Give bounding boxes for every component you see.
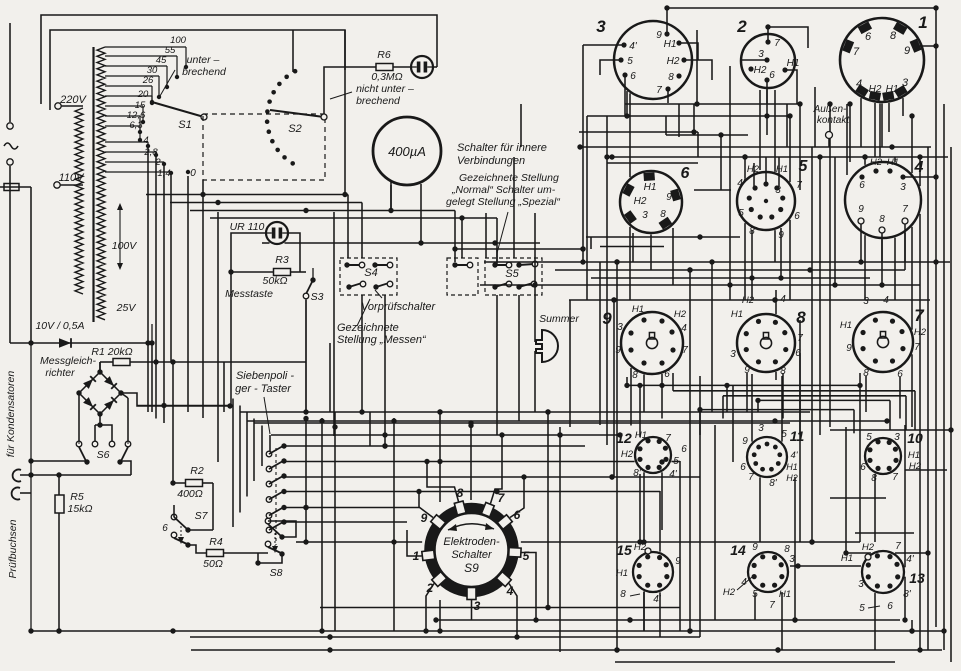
wire bbox=[667, 7, 936, 9]
junction bbox=[772, 297, 777, 302]
svg-text:6: 6 bbox=[769, 70, 775, 81]
buzzer bbox=[536, 330, 558, 362]
wire bbox=[789, 116, 791, 182]
svg-text:unter –: unter – bbox=[187, 54, 220, 66]
svg-text:S7: S7 bbox=[195, 510, 209, 522]
junction bbox=[694, 101, 699, 106]
wire bbox=[579, 131, 698, 133]
wire bbox=[904, 233, 906, 270]
mains input lead bbox=[9, 23, 11, 122]
wire bbox=[751, 374, 753, 442]
junction bbox=[637, 539, 642, 544]
junction bbox=[391, 418, 396, 423]
wire bbox=[344, 30, 346, 195]
svg-text:H1: H1 bbox=[776, 164, 788, 175]
wire bbox=[439, 600, 441, 631]
wire bbox=[599, 262, 601, 425]
wire bbox=[334, 412, 336, 631]
svg-text:4': 4' bbox=[906, 554, 915, 565]
junction bbox=[303, 505, 308, 510]
socket 9 bbox=[621, 312, 683, 374]
junction bbox=[817, 154, 822, 159]
wire S2 top bbox=[292, 30, 294, 72]
junction bbox=[941, 628, 946, 633]
svg-text:R2: R2 bbox=[190, 465, 204, 477]
junction bbox=[145, 340, 150, 345]
junction bbox=[742, 154, 747, 159]
wire bbox=[935, 8, 937, 627]
svg-text:6: 6 bbox=[795, 348, 801, 359]
svg-text:3: 3 bbox=[900, 182, 906, 193]
junction bbox=[303, 409, 308, 414]
junction bbox=[659, 459, 664, 464]
wire R5 bbox=[58, 475, 60, 495]
svg-text:2: 2 bbox=[426, 581, 434, 595]
wire bbox=[202, 180, 204, 418]
wire bbox=[672, 373, 674, 391]
junction bbox=[687, 267, 692, 272]
wire bbox=[626, 91, 628, 116]
wire UR110 box bbox=[231, 233, 266, 406]
wire socket14 to 13 bbox=[790, 565, 861, 567]
junction bbox=[749, 275, 754, 280]
wire bbox=[895, 552, 928, 554]
wire bbox=[262, 242, 270, 244]
wire bbox=[754, 593, 756, 620]
junction bbox=[843, 550, 848, 555]
wire bbox=[333, 212, 335, 436]
wire bbox=[439, 412, 441, 502]
svg-text:„Normal“ Schalter um-: „Normal“ Schalter um- bbox=[451, 184, 556, 196]
wire bbox=[874, 593, 876, 650]
svg-text:6: 6 bbox=[681, 165, 690, 182]
wire bbox=[586, 236, 740, 238]
wire bbox=[247, 420, 890, 422]
svg-text:H2: H2 bbox=[869, 84, 882, 95]
wire bbox=[607, 162, 698, 164]
wire bbox=[650, 235, 652, 271]
junction bbox=[342, 192, 347, 197]
wire bbox=[454, 211, 456, 250]
wire bbox=[879, 103, 881, 157]
wire bbox=[874, 103, 876, 157]
svg-text:5: 5 bbox=[627, 56, 633, 67]
resistor R4 bbox=[207, 550, 224, 557]
wire bbox=[746, 373, 748, 412]
wire bbox=[780, 228, 782, 278]
junction bbox=[624, 383, 629, 388]
junction bbox=[879, 282, 884, 287]
svg-text:Gezeichnete Stellung: Gezeichnete Stellung bbox=[459, 172, 559, 184]
siebenpol dashed line bbox=[275, 448, 277, 545]
svg-text:3: 3 bbox=[474, 599, 481, 613]
svg-text:S5: S5 bbox=[505, 268, 519, 280]
wire bbox=[559, 427, 561, 652]
meter 400uA bbox=[373, 117, 441, 185]
wire bbox=[865, 376, 867, 412]
junction bbox=[948, 427, 953, 432]
junction bbox=[909, 628, 914, 633]
junction bbox=[452, 246, 457, 251]
svg-text:10: 10 bbox=[907, 430, 923, 446]
svg-text:4: 4 bbox=[780, 294, 786, 305]
junction bbox=[792, 617, 797, 622]
wire bbox=[811, 147, 813, 542]
svg-text:8: 8 bbox=[780, 366, 786, 377]
wire bbox=[361, 203, 363, 259]
wire bbox=[271, 434, 620, 436]
junction bbox=[687, 267, 692, 272]
wire bbox=[904, 425, 906, 567]
svg-text:Vorprüfschalter: Vorprüfschalter bbox=[361, 301, 437, 313]
svg-text:3: 3 bbox=[730, 349, 736, 360]
wire bbox=[720, 135, 722, 190]
junction bbox=[611, 297, 616, 302]
svg-text:kontakt: kontakt bbox=[817, 115, 850, 126]
wire bbox=[775, 290, 777, 314]
junction bbox=[792, 617, 797, 622]
wire bbox=[782, 373, 784, 419]
wire bbox=[904, 577, 906, 620]
wire bbox=[629, 93, 631, 177]
svg-text:4': 4' bbox=[629, 41, 638, 52]
wire bbox=[661, 472, 663, 530]
wire R2 bbox=[173, 482, 186, 484]
svg-text:7: 7 bbox=[682, 345, 688, 356]
svg-text:8: 8 bbox=[871, 473, 877, 484]
junction bbox=[614, 259, 619, 264]
svg-text:H2: H2 bbox=[786, 473, 798, 483]
wire bbox=[190, 210, 455, 212]
transformer primary winding bbox=[75, 108, 83, 294]
fuse bbox=[0, 186, 31, 188]
wire bbox=[147, 148, 149, 412]
svg-text:26: 26 bbox=[142, 75, 154, 86]
socket 8 bbox=[737, 314, 795, 372]
svg-text:50kΩ: 50kΩ bbox=[263, 275, 288, 287]
wire bbox=[608, 156, 948, 158]
wire bbox=[781, 592, 783, 650]
wire bbox=[284, 461, 635, 463]
svg-text:4': 4' bbox=[669, 469, 678, 480]
wire bbox=[855, 532, 914, 534]
svg-text:H2: H2 bbox=[754, 65, 767, 76]
svg-text:8': 8' bbox=[903, 589, 912, 600]
junction bbox=[303, 505, 308, 510]
junction bbox=[614, 647, 619, 652]
wire bbox=[284, 491, 660, 493]
svg-text:Messtaste: Messtaste bbox=[225, 288, 273, 300]
junction bbox=[614, 259, 619, 264]
wire bbox=[864, 235, 866, 300]
junction bbox=[902, 617, 907, 622]
junction bbox=[437, 628, 442, 633]
wire bbox=[696, 30, 698, 104]
wire S6 bottom bbox=[31, 460, 87, 462]
wire bbox=[155, 157, 157, 419]
wire bbox=[547, 412, 549, 607]
wire bbox=[911, 620, 913, 631]
junction bbox=[637, 383, 642, 388]
resistor R5 bbox=[55, 495, 64, 513]
wire bbox=[751, 230, 753, 300]
svg-text:3: 3 bbox=[863, 296, 869, 307]
svg-text:Schalter für innere: Schalter für innere bbox=[457, 142, 547, 154]
junction bbox=[557, 432, 562, 437]
wire socket1 bbox=[919, 45, 936, 47]
svg-text:2: 2 bbox=[736, 17, 747, 36]
junction bbox=[933, 259, 938, 264]
wire bbox=[699, 376, 701, 637]
svg-text:4: 4 bbox=[506, 584, 514, 598]
junction bbox=[909, 113, 914, 118]
junction bbox=[200, 192, 205, 197]
wire bbox=[911, 116, 913, 173]
junction bbox=[797, 101, 802, 106]
svg-text:4': 4' bbox=[737, 178, 746, 189]
wire bbox=[146, 194, 348, 196]
svg-text:45: 45 bbox=[156, 55, 167, 66]
svg-text:H1: H1 bbox=[731, 309, 743, 320]
junction bbox=[514, 634, 519, 639]
wire bridge left bbox=[78, 393, 80, 441]
wire bbox=[758, 399, 890, 401]
svg-text:Stellung „Messen“: Stellung „Messen“ bbox=[337, 334, 427, 346]
junction bbox=[664, 5, 669, 10]
wire bbox=[732, 385, 734, 462]
svg-text:Verbindungen: Verbindungen bbox=[457, 155, 525, 167]
junction bbox=[468, 420, 473, 425]
svg-text:7: 7 bbox=[902, 204, 908, 215]
junction bbox=[56, 628, 61, 633]
junction bbox=[727, 282, 732, 287]
junction bbox=[884, 418, 889, 423]
wire bbox=[659, 592, 661, 637]
wire bbox=[697, 132, 699, 157]
wire bbox=[766, 89, 768, 135]
svg-text:9: 9 bbox=[742, 436, 748, 447]
wire bbox=[240, 411, 810, 413]
svg-text:7: 7 bbox=[656, 85, 662, 96]
junction bbox=[909, 628, 914, 633]
junction bbox=[418, 240, 423, 245]
wire bbox=[190, 636, 700, 638]
wire bbox=[321, 418, 323, 631]
svg-text:14: 14 bbox=[730, 542, 746, 558]
switch S4 contacts bbox=[344, 262, 349, 267]
wire bbox=[630, 368, 632, 426]
wire S7 bbox=[173, 505, 175, 517]
wire bbox=[600, 246, 664, 248]
wire buzzer bbox=[534, 285, 536, 342]
wire bbox=[659, 491, 661, 552]
svg-text:9: 9 bbox=[778, 230, 784, 241]
junction bbox=[521, 474, 526, 479]
wire bbox=[285, 242, 541, 244]
svg-text:H2: H2 bbox=[667, 56, 680, 67]
svg-text:H1: H1 bbox=[779, 589, 791, 600]
svg-text:6: 6 bbox=[865, 31, 872, 43]
wire bbox=[485, 213, 487, 258]
AC symbol bbox=[4, 143, 18, 149]
wire bbox=[665, 116, 667, 135]
wire bbox=[673, 390, 915, 392]
junction bbox=[577, 144, 582, 149]
junction bbox=[580, 246, 585, 251]
resistor R2 bbox=[186, 480, 203, 487]
svg-text:8: 8 bbox=[879, 214, 885, 225]
wire bbox=[284, 476, 700, 478]
wire bbox=[496, 295, 498, 435]
wire bbox=[329, 343, 331, 412]
junction bbox=[437, 409, 442, 414]
svg-text:Gezeichnete: Gezeichnete bbox=[337, 322, 399, 334]
svg-text:Prüfbuchsen: Prüfbuchsen bbox=[7, 519, 19, 578]
junction bbox=[153, 359, 158, 364]
wire bbox=[613, 300, 615, 477]
junction bbox=[437, 459, 442, 464]
wire bbox=[191, 649, 942, 651]
junction bbox=[809, 539, 814, 544]
junction bbox=[778, 275, 783, 280]
wire bbox=[671, 461, 680, 463]
svg-text:0: 0 bbox=[190, 168, 196, 179]
wire bbox=[864, 157, 866, 165]
svg-text:8: 8 bbox=[632, 370, 638, 381]
wire top frame bbox=[41, 15, 437, 104]
wire bbox=[629, 227, 631, 300]
svg-text:3: 3 bbox=[617, 322, 623, 333]
wire bbox=[950, 147, 952, 662]
svg-text:13: 13 bbox=[909, 570, 925, 586]
svg-text:S9: S9 bbox=[464, 561, 479, 575]
junction bbox=[827, 101, 832, 106]
wire bbox=[744, 157, 746, 179]
svg-text:50Ω: 50Ω bbox=[203, 558, 223, 570]
S1 S2 dashed box bbox=[203, 114, 325, 180]
svg-text:4': 4' bbox=[653, 594, 662, 605]
wire bbox=[534, 213, 536, 285]
junction bbox=[637, 539, 642, 544]
wire bbox=[799, 353, 801, 435]
svg-text:3: 3 bbox=[642, 210, 648, 221]
svg-text:8: 8 bbox=[863, 368, 869, 379]
svg-text:H1: H1 bbox=[644, 182, 657, 193]
svg-text:R1 20kΩ: R1 20kΩ bbox=[91, 346, 132, 358]
svg-text:H2: H2 bbox=[909, 461, 922, 472]
svg-text:richter: richter bbox=[45, 367, 75, 379]
junction bbox=[545, 605, 550, 610]
junction bbox=[604, 154, 609, 159]
junction bbox=[889, 144, 894, 149]
svg-text:6: 6 bbox=[887, 601, 893, 612]
junction bbox=[609, 474, 614, 479]
wire bbox=[894, 157, 896, 162]
junction bbox=[933, 5, 938, 10]
wire bbox=[224, 361, 306, 363]
wire bbox=[829, 104, 831, 427]
diode D1 bbox=[59, 338, 71, 348]
junction bbox=[437, 409, 442, 414]
wire bbox=[461, 218, 463, 258]
junction bbox=[416, 489, 421, 494]
svg-text:R4: R4 bbox=[209, 536, 223, 548]
svg-text:S1: S1 bbox=[178, 119, 191, 131]
svg-text:9: 9 bbox=[846, 343, 852, 354]
svg-text:H1: H1 bbox=[787, 58, 800, 69]
junction bbox=[614, 647, 619, 652]
wire bbox=[496, 249, 498, 265]
switch S2 arm bbox=[270, 110, 324, 117]
wire S8 bbox=[268, 521, 296, 537]
junction bbox=[787, 113, 792, 118]
junction bbox=[742, 154, 747, 159]
wire bbox=[384, 295, 386, 446]
wire bbox=[223, 362, 225, 412]
electrode switch S9 bbox=[430, 509, 513, 592]
wire bbox=[723, 395, 906, 397]
junction bbox=[433, 617, 438, 622]
junction bbox=[611, 297, 616, 302]
wire bbox=[625, 103, 800, 105]
wire bbox=[699, 410, 701, 435]
junction bbox=[319, 628, 324, 633]
svg-text:6: 6 bbox=[794, 211, 800, 222]
junction bbox=[359, 409, 364, 414]
junction bbox=[459, 215, 464, 220]
wire bbox=[639, 474, 641, 542]
wire bbox=[661, 374, 663, 419]
svg-text:3: 3 bbox=[894, 432, 900, 443]
wire bbox=[711, 262, 713, 412]
svg-text:9: 9 bbox=[602, 309, 612, 328]
svg-text:5: 5 bbox=[738, 208, 744, 219]
svg-text:4: 4 bbox=[914, 159, 924, 176]
junction bbox=[319, 418, 324, 423]
wire bbox=[496, 218, 498, 262]
junction bbox=[775, 647, 780, 652]
svg-text:gelegt Stellung „Spezial“: gelegt Stellung „Spezial“ bbox=[446, 196, 560, 208]
switch S8 bbox=[265, 518, 271, 524]
wire bbox=[881, 104, 883, 148]
leader S5 bbox=[497, 212, 508, 253]
wire bbox=[305, 300, 307, 412]
wire bbox=[643, 592, 645, 631]
svg-text:15: 15 bbox=[616, 542, 632, 558]
svg-text:25V: 25V bbox=[116, 302, 137, 314]
svg-text:UR 110: UR 110 bbox=[230, 221, 265, 233]
svg-text:H2: H2 bbox=[634, 542, 647, 553]
svg-text:R3: R3 bbox=[275, 254, 289, 266]
junction bbox=[391, 539, 396, 544]
junction bbox=[917, 647, 922, 652]
wire bbox=[320, 607, 680, 609]
wire bbox=[284, 507, 420, 509]
svg-text:H1: H1 bbox=[786, 462, 798, 472]
wire bbox=[254, 422, 790, 424]
svg-text:8': 8' bbox=[749, 226, 758, 237]
svg-text:20: 20 bbox=[137, 89, 149, 100]
svg-text:4: 4 bbox=[143, 135, 148, 146]
junction bbox=[775, 647, 780, 652]
siebenpol feed staircase bbox=[269, 435, 271, 451]
wire bbox=[911, 227, 913, 330]
wire bbox=[744, 223, 746, 300]
junction bbox=[659, 383, 664, 388]
svg-text:nicht unter –: nicht unter – bbox=[356, 83, 414, 95]
svg-text:8: 8 bbox=[796, 308, 806, 327]
svg-text:7: 7 bbox=[797, 333, 803, 344]
